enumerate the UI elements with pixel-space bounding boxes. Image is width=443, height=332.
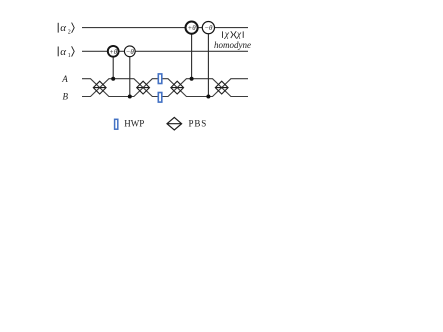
phase modulator circle C2 -theta bbox=[124, 46, 135, 57]
svg-text:α: α bbox=[60, 22, 66, 34]
label projector chi ket-bra bbox=[223, 30, 244, 40]
svg-text:χ: χ bbox=[236, 30, 242, 40]
label ket alpha1 bbox=[58, 46, 74, 59]
node junction dot on B at x=130 bbox=[128, 95, 132, 99]
phase modulator circle C3 +theta bbox=[186, 22, 198, 34]
phase modulator circle C1 +theta bbox=[108, 46, 119, 57]
phase modulator circle C4 -theta bbox=[202, 22, 214, 34]
node junction dot on A at x=191.6 bbox=[190, 77, 194, 81]
node junction dot on B at x=208.4 bbox=[206, 95, 210, 99]
wire control vertical from -theta C4 to node on B bbox=[207, 28, 209, 97]
svg-text:PBS: PBS bbox=[189, 119, 208, 129]
wire alpha1 line bbox=[82, 50, 248, 52]
PBS 3 diamond bbox=[171, 81, 184, 94]
HWP lower rectangle on mode B bbox=[158, 93, 162, 103]
svg-text:+θ: +θ bbox=[109, 48, 118, 56]
wire control vertical from -theta C2 to node on B bbox=[129, 51, 131, 96]
svg-text:α: α bbox=[60, 46, 66, 58]
svg-text:−θ: −θ bbox=[204, 24, 213, 32]
wire mode B zigzag path bbox=[82, 79, 248, 97]
legend PBS diamond bbox=[167, 117, 182, 130]
svg-text:−θ: −θ bbox=[126, 48, 135, 56]
label ket alpha2 bbox=[58, 22, 74, 35]
svg-text:1: 1 bbox=[68, 53, 71, 59]
legend HWP rectangle bbox=[115, 119, 118, 129]
svg-text:homodyne: homodyne bbox=[214, 40, 251, 50]
PBS 1 diamond bbox=[93, 81, 106, 94]
svg-text:+θ: +θ bbox=[188, 24, 197, 32]
wire control vertical from +theta C3 to node on A bbox=[191, 28, 193, 79]
wire mode A zigzag path bbox=[82, 79, 248, 97]
PBS 2 diamond bbox=[137, 81, 150, 94]
svg-text:χ: χ bbox=[224, 30, 230, 40]
HWP upper rectangle on mode A bbox=[158, 74, 162, 84]
svg-text:2: 2 bbox=[68, 29, 71, 35]
svg-text:HWP: HWP bbox=[124, 119, 144, 129]
node junction dot on A at x=113 bbox=[111, 77, 115, 81]
svg-text:A: A bbox=[61, 74, 68, 84]
svg-text:B: B bbox=[63, 92, 69, 102]
wire alpha2 line bbox=[82, 27, 248, 29]
PBS 4 diamond bbox=[215, 81, 228, 94]
wire control vertical from +theta C1 to node on A bbox=[112, 51, 114, 78]
